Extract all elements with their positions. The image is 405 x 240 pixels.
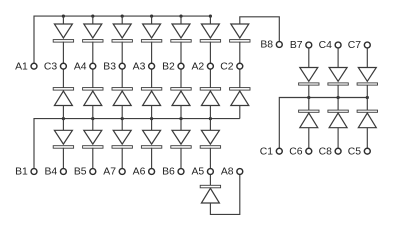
wire: C2 top diode anode up and over to pin B8: [240, 17, 279, 42]
pin A3: [149, 63, 155, 69]
svg-text:C4: C4: [319, 40, 333, 51]
pin C8: [335, 148, 341, 154]
diode D4 (top row, anode bus to pin A3): [141, 16, 161, 63]
pin B4: [60, 169, 66, 175]
pin B7: [306, 42, 312, 48]
svg-text:A1: A1: [15, 61, 28, 72]
junction: middle bus at column B3: [121, 117, 124, 120]
wire: middle cathode bus from pin B1 up, across to column C2: [34, 119, 240, 169]
junction: right bus at column C4: [337, 96, 340, 99]
pin A5: [207, 169, 213, 175]
junction: middle bus at column A4: [91, 117, 94, 120]
pin C7: [364, 42, 370, 48]
diode D9 (middle row, cathode to pin A4, anode to middle bus): [83, 69, 103, 119]
pin C4: [335, 42, 341, 48]
diode D27 (right bottom, cathode right bus to pin C5): [357, 98, 377, 149]
diode D19 (bottom row, anode middle bus to pin B6): [171, 119, 191, 169]
junction: top bus at column B2: [179, 15, 182, 18]
wire: top anode bus from pin A1 up and across to column A2: [34, 16, 210, 63]
diode D6 (top row, anode bus to pin A2): [200, 16, 220, 63]
junction: middle bus at column A3: [150, 117, 153, 120]
junction: top bus at column A2: [209, 15, 212, 18]
diode D11 (middle row, cathode to pin A3, anode to middle bus): [141, 69, 161, 119]
svg-text:C7: C7: [348, 40, 362, 51]
pin B2: [178, 63, 184, 69]
diode D8 (middle row, cathode to pin C3, anode to middle bus): [53, 69, 73, 119]
diode D12 (middle row, cathode to pin B2, anode to middle bus): [171, 69, 191, 119]
svg-text:C1: C1: [260, 146, 274, 157]
junction: right bus at column C7: [366, 96, 369, 99]
diode D18 (bottom row, anode middle bus to pin A6): [141, 119, 161, 169]
junction: middle bus at column A2: [209, 117, 212, 120]
pin B6: [178, 169, 184, 175]
svg-text:C5: C5: [348, 146, 362, 157]
pin C1: [276, 148, 282, 154]
svg-text:C2: C2: [220, 61, 234, 72]
svg-text:A2: A2: [191, 61, 204, 72]
pin A6: [149, 169, 155, 175]
svg-text:C6: C6: [289, 146, 303, 157]
junction: top bus at column A3: [150, 15, 153, 18]
diode D13 (middle row, cathode to pin A2, anode to middle bus): [200, 69, 220, 119]
junction: top bus at column B3: [121, 15, 124, 18]
pin A2: [207, 63, 213, 69]
diode D3 (top row, anode bus to pin B3): [112, 16, 132, 63]
wire: A8 loop from diode anode down, right and up to pin A8: [210, 174, 239, 214]
diode D21 (cathode to pin A5, anode looped to pin A8): [200, 174, 220, 203]
svg-text:B4: B4: [44, 167, 57, 178]
pin A4: [90, 63, 96, 69]
pin A7: [119, 169, 125, 175]
svg-text:B7: B7: [290, 40, 303, 51]
diode D14 (middle row, cathode to pin C2, anode to middle bus): [230, 69, 250, 119]
pin C3: [60, 63, 66, 69]
svg-text:B2: B2: [162, 61, 175, 72]
diode D10 (middle row, cathode to pin B3, anode to middle bus): [112, 69, 132, 119]
diode D17 (bottom row, anode middle bus to pin A7): [112, 119, 132, 169]
wire: right cathode bus from pin C1 up and across to column C7: [279, 98, 367, 149]
pin C6: [306, 148, 312, 154]
svg-text:C3: C3: [44, 61, 58, 72]
svg-text:A4: A4: [74, 61, 87, 72]
diode D5 (top row, anode bus to pin B2): [171, 16, 191, 63]
junction: top bus at column C3: [62, 15, 65, 18]
diode D22 (right top, anode pin B7 to right bus): [299, 48, 319, 98]
diode D23 (right top, anode pin C4 to right bus): [328, 48, 348, 98]
pin B8: [276, 42, 282, 48]
svg-text:B5: B5: [74, 167, 87, 178]
svg-text:B1: B1: [15, 167, 28, 178]
diode D25 (right bottom, cathode right bus to pin C6): [299, 98, 319, 149]
diode D16 (bottom row, anode middle bus to pin B5): [83, 119, 103, 169]
svg-text:A3: A3: [133, 61, 146, 72]
pin B3: [119, 63, 125, 69]
svg-text:A8: A8: [221, 167, 234, 178]
svg-text:A7: A7: [103, 167, 116, 178]
svg-text:A5: A5: [191, 167, 204, 178]
svg-text:B3: B3: [103, 61, 116, 72]
pin B5: [90, 169, 96, 175]
pin B1: [31, 169, 37, 175]
diode D1 (top row, anode bus to pin C3): [53, 16, 73, 63]
diode D2 (top row, anode bus to pin A4): [83, 16, 103, 63]
pin C5: [364, 148, 370, 154]
diode D20 (bottom row, anode middle bus to pin A5): [200, 119, 220, 169]
pin C2: [237, 63, 243, 69]
diode D26 (right bottom, cathode right bus to pin C8): [328, 98, 348, 149]
svg-text:C8: C8: [319, 146, 333, 157]
pin A8: [237, 169, 243, 175]
diode D24 (right top, anode pin C7 to right bus): [357, 48, 377, 98]
diode D15 (bottom row, anode middle bus to pin B4): [53, 119, 73, 169]
junction: middle bus at column B2: [179, 117, 182, 120]
junction: top bus at column A4: [91, 15, 94, 18]
svg-text:B8: B8: [260, 40, 273, 51]
svg-text:A6: A6: [133, 167, 146, 178]
junction: middle bus at column C3: [62, 117, 65, 120]
pin A1: [31, 63, 37, 69]
diode D7 (top row, anode bus to pin C2): [230, 24, 250, 63]
junction: right bus at column B7: [307, 96, 310, 99]
svg-text:B6: B6: [162, 167, 175, 178]
